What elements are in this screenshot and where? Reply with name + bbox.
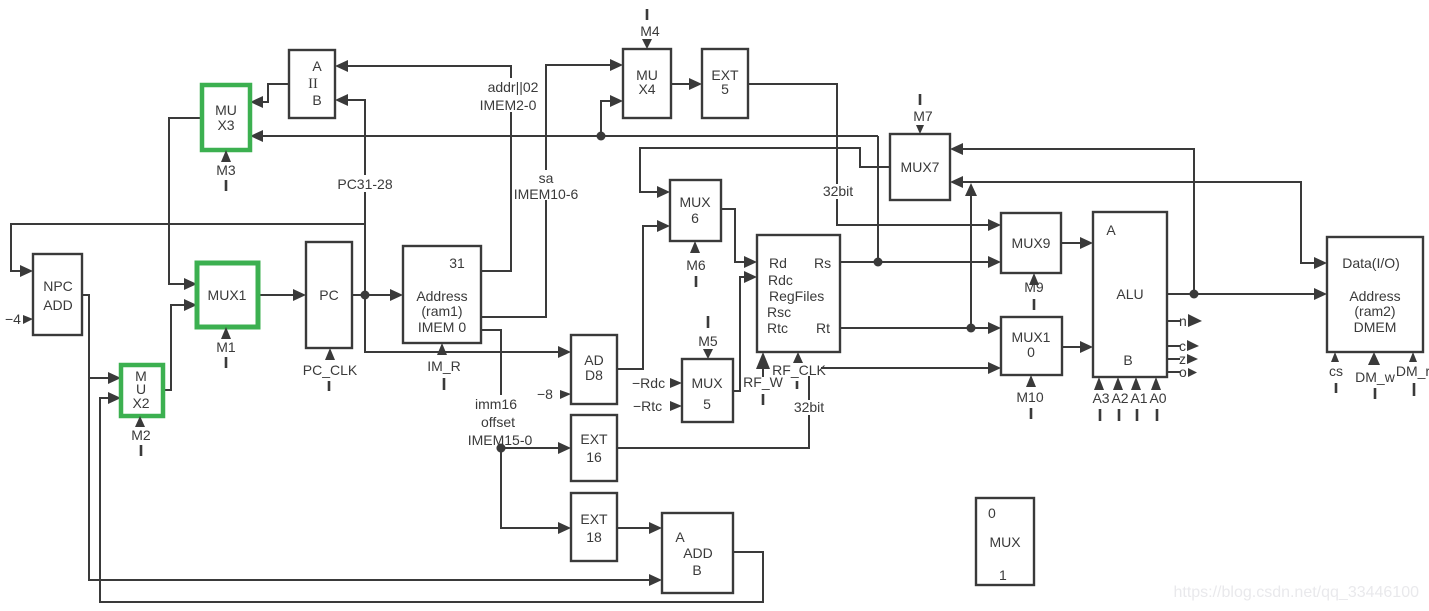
control M4 of MUX4 [640,9,660,49]
svg-text:M6: M6 [686,257,706,273]
svg-text:sa: sa [539,170,554,186]
wire arrowhead into ALU A input [1080,237,1093,249]
wire Rt branch up to DMEM data line [970,194,972,328]
wire long Rs feedback line y=136 to MUX3 lower input [261,135,878,137]
svg-text:A: A [675,529,685,545]
svg-text:M10: M10 [1016,389,1043,405]
svg-text:IM_R: IM_R [427,358,460,374]
svg-text:M9: M9 [1024,279,1044,295]
svg-text:5: 5 [703,396,711,412]
control RF_CLK of RegFiles [772,352,826,389]
node junction on Rt output [967,324,976,333]
control IM_R of ram1 [427,343,460,390]
wire arrowhead into A-ADD-B input2 [649,574,662,586]
wire MUX2 output up to MUX1 input2 [163,305,186,390]
svg-text:18: 18 [586,529,602,545]
wire imm16 from ram1 down to EXT16 and EXT18 [481,330,560,528]
svg-text:M5: M5 [698,333,718,349]
wire branch into EXT16 [501,447,560,449]
svg-text:offset: offset [481,414,515,430]
wire Rs feedback branch up to MUX4 input2 [601,101,612,136]
svg-text:32bit: 32bit [794,399,824,415]
control M6 of MUX6 [686,241,706,287]
wire EXT16 output 32bit to MUX10 input2 [617,368,990,448]
mux MUX5 [682,359,733,422]
wire arrowhead into RegFiles Rd [744,256,757,268]
svg-text:A: A [1106,222,1116,238]
wire arrowhead into PC [293,289,306,301]
wire MUX5 output to RegFiles Rdc input [733,277,746,391]
svg-text:imm16: imm16 [475,396,517,412]
control M5 of MUX5 [698,316,718,359]
svg-text:Rt: Rt [816,320,830,336]
register file RegFiles [757,235,840,352]
wire PC31-28 vertical up to A||B box B input [346,100,365,295]
net label imm16 offset IMEM15-0 [466,395,536,448]
svg-text:0: 0 [988,505,996,521]
wire branch NPC-ADD output into MUX2 input1 [89,377,110,379]
wire arrowhead into MUX9 input1 [988,219,1001,231]
wire RegFiles Rt output to MUX10 input1 [840,327,990,329]
wire ALU output to Data(I/O) address input [1167,293,1316,295]
legend mux 0/1 box [976,498,1034,585]
wire arrowhead into Data(I/O) address input [1314,288,1327,300]
ALU flag output o [1167,364,1197,380]
label Rtc input of MUX5 [633,398,682,414]
svg-text:31: 31 [449,255,465,271]
svg-text:MUX: MUX [679,194,711,210]
wire arrowhead into MUX3 lower input (pointing left) [250,130,263,142]
wire arrowhead into MUX10 input2 [988,362,1001,374]
svg-text:II: II [308,76,318,92]
svg-text:EXT: EXT [580,511,608,527]
wire arrowhead into MUX10 input1 [988,322,1001,334]
mux MUX4 [623,49,671,118]
svg-text:IMEM10-6: IMEM10-6 [514,186,579,202]
wire arrowhead into MUX4 input2 [610,95,623,107]
svg-text:−4: −4 [5,311,21,327]
control M10 of MUX10 [1016,375,1043,419]
svg-text:MU: MU [215,102,237,118]
net label PC31-28 [337,175,393,192]
wire arrowhead into MUX9 input2 [988,256,1001,268]
svg-text:Rs: Rs [814,255,831,271]
svg-text:o: o [1179,364,1187,380]
svg-text:MUX7: MUX7 [901,159,940,175]
svg-text:M3: M3 [216,162,236,178]
svg-text:−8: −8 [537,386,553,402]
net label addr||02 IMEM2-0 [480,78,542,113]
svg-text:RegFiles: RegFiles [769,288,824,304]
wire A||B output into MUX3 upper input [261,84,289,102]
svg-text:addr||02: addr||02 [488,79,539,95]
ALU control inputs A3 A2 A1 A0 [1092,377,1166,421]
wire arrowhead into MUX7 upper input (pointing left) [950,143,963,155]
svg-text:NPC: NPC [43,278,73,294]
label -8 input of ADD8 [537,386,571,402]
svg-text:MUX1: MUX1 [208,287,247,303]
svg-text:AD: AD [584,352,603,368]
wire arrowhead into MUX2 input2 [108,392,121,404]
alu ALU [1093,212,1167,377]
svg-text:(ram1): (ram1) [421,303,462,319]
svg-text:X2: X2 [132,395,149,411]
label -4 input of NPC ADD [5,311,33,327]
wire arrowhead merging up into data line [965,183,977,196]
wire arrowhead into EXT5 [689,78,702,90]
svg-text:Rdc: Rdc [768,272,793,288]
wire arrowhead into Address(ram1) [390,289,403,301]
mux MUX7 [890,134,950,200]
wire arrowhead into MUX4 input1 [610,59,623,71]
svg-text:5: 5 [721,81,729,97]
svg-text:A2: A2 [1111,390,1128,406]
wire arrowhead into A||B B input (pointing left) [335,94,348,106]
control M7 of MUX7 [913,94,933,134]
memory Address(ram1) IMEM [403,246,481,343]
wire PC output down to ADD8 input [365,295,560,352]
svg-text:Address: Address [1349,288,1400,304]
svg-text:PC: PC [319,287,338,303]
wire MUX7 output back to MUX6 input1 [640,148,890,192]
svg-text:Rsc: Rsc [767,304,791,320]
svg-text:EXT: EXT [580,431,608,447]
wire addr||02 from ram1 up to A||B A input [346,66,511,271]
svg-text:M2: M2 [131,427,151,443]
net label 32bit (EXT5 line) [820,183,856,199]
wire EXT5 output 32bit down to MUX9 input1 [748,84,990,225]
svg-text:ADD: ADD [683,545,713,561]
control M2 of MUX2 [131,416,151,456]
svg-text:X4: X4 [638,81,655,97]
svg-text:M7: M7 [913,108,933,124]
wire MUX3 output down to MUX1 input1 [169,118,202,284]
wire MUX10 output to ALU B input [1062,346,1082,348]
svg-text:X3: X3 [217,117,234,133]
svg-text:M4: M4 [640,23,660,39]
svg-text:PC31-28: PC31-28 [337,176,392,192]
wire ALU result feedback up to MUX7 upper input [961,149,1194,294]
wire MUX9 output to ALU A input [1061,242,1082,244]
svg-text:MUX1: MUX1 [1012,329,1051,345]
wire A-ADD-B output loop to MUX2 input2 [100,398,763,602]
mux MUX9 [1001,213,1061,273]
wire arrowhead into Data(I/O) upper input [1314,257,1327,269]
svg-text:DMEM: DMEM [1354,319,1397,335]
svg-text:Rd: Rd [769,255,787,271]
svg-text:IMEM 0: IMEM 0 [418,319,466,335]
svg-text:Address: Address [416,288,467,304]
wire arrowhead into MUX6 input1 [657,186,670,198]
node junction on ALU output [1190,290,1199,299]
svg-text:0: 0 [1027,344,1035,360]
svg-text:32bit: 32bit [823,183,853,199]
svg-text:ADD: ADD [43,297,73,313]
svg-text:B: B [312,92,321,108]
wire NPC-ADD output down the left side to A-ADD-B second input [82,295,660,580]
control DM_r of DMEM [1396,352,1429,396]
svg-text:A0: A0 [1149,390,1166,406]
label Rdc input of MUX5 [632,375,682,391]
ALU flag output n [1167,313,1202,329]
wire MUX1 output to PC [258,294,295,296]
svg-text:cs: cs [1329,363,1343,379]
extender EXT5 [702,49,748,118]
wire arrowhead into ADD8 input [558,346,571,358]
wire ADD8 output up to MUX6 input2 [617,226,659,369]
wire arrowhead into NPC ADD input [20,265,33,277]
control RF_W of RegFiles [743,352,783,405]
mux MUX1 (green) [197,263,258,327]
mux MUX3 (green) [202,85,250,150]
svg-text:Rtc: Rtc [767,320,788,336]
svg-text:ALU: ALU [1116,286,1143,302]
wire arrowhead into RegFiles Rdc [744,271,757,283]
wire arrowhead into MUX3 upper input (pointing left) [250,96,263,108]
wire PC output to Address(ram1) [352,294,392,296]
extender EXT18 [571,493,617,561]
svg-text:D8: D8 [585,367,603,383]
wire sa IMEM10-6 from ram1 up to MUX4 input1 [481,65,612,317]
svg-text:MUX9: MUX9 [1012,235,1051,251]
svg-text:1: 1 [999,567,1007,583]
wire arrowhead into EXT18 [558,522,571,534]
register PC [306,242,352,348]
svg-text:PC_CLK: PC_CLK [303,362,358,378]
wire arrowhead into MUX1 input1 [184,278,197,290]
control PC_CLK of PC [303,348,358,391]
svg-text:6: 6 [691,210,699,226]
node junction on imm16 line (redrawn above label) [497,444,506,453]
wire arrowhead into A-ADD-B input1 [649,522,662,534]
svg-text:IMEM2-0: IMEM2-0 [480,97,537,113]
svg-text:A: A [312,58,322,74]
memory Data(I/O) Address(ram2) DMEM [1327,237,1423,352]
extender EXT16 [571,415,617,481]
svg-text:−Rdc: −Rdc [632,375,665,391]
svg-text:DM_r: DM_r [1396,363,1429,379]
wire PC-out to NPC-ADD (top long feedback y=224) [11,224,365,271]
adder A-ADD-B [662,513,733,593]
svg-text:A3: A3 [1092,390,1109,406]
svg-text:B: B [1123,352,1132,368]
net label 32bit (EXT16 line) [791,399,827,415]
svg-text:16: 16 [586,449,602,465]
wire EXT18 output to A-ADD-B input1 [617,527,651,529]
wire MUX6 output to RegFiles Rd input [721,209,746,262]
control cs of DMEM [1329,352,1343,393]
svg-text:RF_CLK: RF_CLK [772,362,826,378]
control M1 of MUX1 [216,327,236,368]
ALU flag output c [1167,338,1199,354]
svg-text:MUX: MUX [989,534,1021,550]
mux MUX10 [1001,317,1062,375]
wire arrowhead into MUX2 input1 [108,372,121,384]
wire arrowhead into MUX7 lower input (pointing left) [950,176,963,188]
wire arrowhead into MUX1 input2 [184,299,197,311]
wire RegFiles Rs output to MUX9 input2 [840,261,990,263]
wire Rs feedback vertical from junction up to long y=136 line [877,136,879,262]
node junction on Rs feedback at MUX4 branch [597,132,606,141]
net label sa IMEM10-6 [514,170,579,202]
wire arrowhead into A||B A input (pointing left) [335,60,348,72]
svg-text:Data(I/O): Data(I/O) [1342,255,1400,271]
svg-text:A1: A1 [1130,390,1147,406]
svg-text:(ram2): (ram2) [1354,303,1395,319]
mux MUX6 [670,180,721,241]
adder ADD8 [571,335,617,404]
svg-text:n: n [1179,313,1187,329]
svg-text:DM_w: DM_w [1355,369,1396,385]
wire arrowhead into MUX6 input2 [657,220,670,232]
control M9 of MUX9 [1024,273,1044,310]
svg-text:−Rtc: −Rtc [633,398,662,414]
wire arrowhead into ALU B input [1080,341,1093,353]
svg-text:B: B [692,562,701,578]
wire data line from Rt to MUX7 lower input and Data(I/O) [961,182,1316,263]
node junction on imm16 line at EXT16 branch [497,444,506,453]
control DM_w of DMEM [1355,352,1396,399]
adder NPC-ADD [33,254,82,335]
wire arrowhead into EXT16 [558,442,571,454]
svg-text:MUX: MUX [691,375,723,391]
svg-text:https://blog.csdn.net/qq_33446: https://blog.csdn.net/qq_33446100 [1173,584,1419,601]
mux MUX2 (green) [121,365,163,416]
control M3 of MUX3 [216,150,236,191]
node junction on Rs output [874,258,883,267]
svg-text:M1: M1 [216,339,236,355]
node junction on PC output [361,291,370,300]
ALU flag output z [1167,351,1198,367]
wire MUX4 output to EXT5 [671,83,691,85]
concat unit A||B [289,50,335,118]
